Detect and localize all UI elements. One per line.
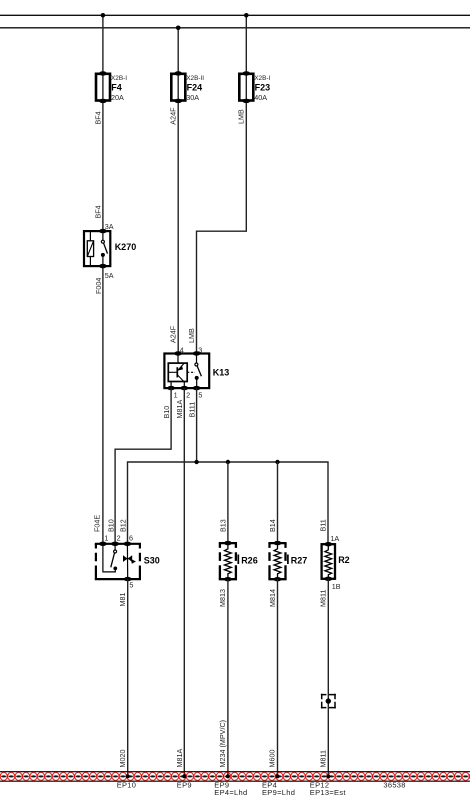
svg-text:5: 5 bbox=[198, 391, 202, 400]
fuse F23 40A bbox=[239, 71, 270, 103]
svg-text:6: 6 bbox=[129, 534, 133, 543]
node: junction dot mid bus / R27 branch bbox=[275, 460, 279, 464]
svg-text:B111: B111 bbox=[188, 402, 197, 418]
switch contact of K13 bbox=[195, 363, 198, 366]
svg-text:BF4: BF4 bbox=[93, 205, 102, 218]
svg-text:M600: M600 bbox=[268, 750, 277, 768]
svg-text:EP13=Est: EP13=Est bbox=[310, 788, 347, 797]
S30 pin6-pin5 line bbox=[126, 544, 128, 579]
K13 driver sub-box bbox=[168, 363, 187, 381]
wire BF4 (bus1 to fuse F4 to relay K270) bbox=[102, 15, 104, 231]
svg-text:F23: F23 bbox=[255, 83, 271, 93]
wire M813 (R26 to ground bus) bbox=[227, 579, 229, 776]
svg-text:EP9: EP9 bbox=[177, 780, 192, 789]
svg-text:R27: R27 bbox=[291, 555, 308, 565]
node: ground junction EP9/EP4 bbox=[226, 774, 230, 778]
svg-text:M81A: M81A bbox=[175, 749, 184, 768]
svg-text:S30: S30 bbox=[144, 555, 160, 565]
relay K13 (solid state) bbox=[164, 351, 229, 390]
svg-text:R26: R26 bbox=[241, 555, 258, 565]
svg-text:B12: B12 bbox=[119, 519, 128, 532]
svg-text:K270: K270 bbox=[115, 242, 137, 252]
resistor R2 bbox=[322, 542, 350, 581]
wire M81A (K13 pin2 to ground bus EP9) bbox=[183, 388, 185, 776]
svg-text:36538: 36538 bbox=[383, 780, 405, 789]
wire B10 (K13 pin1 to S30 pin 2) bbox=[115, 388, 171, 544]
node: junction dot bus2 / A24F bbox=[176, 26, 181, 31]
fuse F4 20A bbox=[96, 71, 127, 103]
svg-text:M81: M81 bbox=[118, 593, 127, 607]
svg-text:B11: B11 bbox=[319, 519, 328, 531]
svg-text:3A: 3A bbox=[105, 222, 114, 231]
node: junction dot bus1 / BF4 bbox=[101, 13, 106, 18]
svg-text:X2B-II: X2B-II bbox=[186, 75, 204, 82]
resistor R26 bbox=[219, 541, 258, 582]
bus line 1 (top supply rail) bbox=[0, 14, 470, 16]
resistor R27 bbox=[268, 541, 307, 582]
wire M814 (R27 to ground bus) bbox=[277, 579, 279, 776]
node: junction dot mid bus / R26 branch bbox=[226, 460, 230, 464]
svg-text:40A: 40A bbox=[254, 93, 267, 102]
node: junction dot bus1 / LMB bbox=[244, 13, 249, 18]
svg-text:B14: B14 bbox=[268, 519, 277, 532]
connector on wire M811 bbox=[321, 694, 336, 709]
svg-text:5: 5 bbox=[129, 581, 133, 590]
fuse F24 30A bbox=[171, 71, 204, 103]
svg-text:M811: M811 bbox=[318, 590, 327, 607]
wire LMB (bus1 through fuse F23 down and left to K13 pin 3) bbox=[197, 15, 247, 353]
node: ground junction EP9 bbox=[182, 774, 186, 778]
svg-text:LMB: LMB bbox=[237, 109, 246, 124]
svg-text:B13: B13 bbox=[218, 519, 227, 532]
svg-text:B10: B10 bbox=[106, 519, 115, 532]
svg-text:30A: 30A bbox=[186, 93, 199, 102]
S30 switch contact bbox=[114, 544, 116, 550]
svg-text:K13: K13 bbox=[213, 367, 230, 377]
svg-text:F24: F24 bbox=[187, 83, 203, 93]
svg-text:X2B-I: X2B-I bbox=[254, 75, 270, 82]
svg-text:B10: B10 bbox=[162, 406, 171, 419]
svg-text:1A: 1A bbox=[330, 534, 339, 543]
svg-text:1: 1 bbox=[174, 391, 178, 400]
svg-text:A24F: A24F bbox=[169, 107, 178, 125]
svg-text:LMB: LMB bbox=[187, 328, 196, 343]
svg-text:BF4: BF4 bbox=[93, 111, 102, 124]
svg-text:F04E: F04E bbox=[92, 515, 101, 532]
ground bus (hatched earth rail) bbox=[0, 772, 470, 782]
svg-text:A24F: A24F bbox=[169, 325, 178, 343]
svg-text:M234 (MPV/C): M234 (MPV/C) bbox=[218, 720, 227, 768]
svg-text:F4: F4 bbox=[111, 83, 122, 93]
mid distribution bus bbox=[128, 462, 329, 544]
svg-text:R2: R2 bbox=[338, 555, 350, 565]
svg-text:F004: F004 bbox=[94, 278, 103, 294]
svg-text:EP10: EP10 bbox=[117, 780, 137, 789]
svg-text:5A: 5A bbox=[105, 271, 114, 280]
bus line 2 (second supply rail) bbox=[0, 27, 470, 29]
svg-text:M814: M814 bbox=[268, 589, 277, 607]
svg-text:M811: M811 bbox=[318, 750, 327, 767]
wire B13 (mid bus to R26) bbox=[227, 462, 229, 543]
svg-text:M81A: M81A bbox=[175, 400, 184, 419]
switch S30 bbox=[95, 542, 160, 582]
node: junction dot B111 / mid bus bbox=[194, 460, 198, 464]
wire B111 (K13 pin5 to mid distribution bus) bbox=[196, 388, 198, 462]
svg-text:2: 2 bbox=[117, 534, 121, 543]
svg-text:1B: 1B bbox=[332, 582, 341, 591]
svg-text:M813: M813 bbox=[218, 589, 227, 607]
S30 sensing element symbol bbox=[123, 555, 128, 562]
transistor symbol inside K13 bbox=[168, 371, 177, 373]
svg-text:X2B-I: X2B-I bbox=[111, 75, 127, 82]
svg-text:M020: M020 bbox=[118, 750, 127, 768]
wire F004 (K270 pin 5A down to S30 pin 1) bbox=[102, 266, 104, 544]
relay K270 bbox=[84, 229, 136, 268]
svg-text:2: 2 bbox=[186, 391, 190, 400]
wire A24F (bus2 through fuse F24 down to K13 pin 4) bbox=[177, 28, 179, 354]
node: ground junction EP10 bbox=[126, 774, 130, 778]
wire M81/M020 (S30 pin 5 to ground bus EP10) bbox=[127, 579, 129, 776]
dashed actuation link K13 bbox=[187, 371, 195, 373]
coil of K270 bbox=[87, 241, 93, 257]
svg-text:EP9=Lhd: EP9=Lhd bbox=[262, 788, 295, 797]
S30 internal link pin1 bbox=[103, 544, 115, 572]
wire M811 (R2 to ground bus EP12) bbox=[327, 579, 329, 777]
node: ground junction EP4/EP9 bbox=[275, 774, 279, 778]
wire B14 (mid bus to R27) bbox=[277, 462, 279, 543]
svg-text:EP4=Lhd: EP4=Lhd bbox=[214, 788, 247, 797]
svg-text:1: 1 bbox=[104, 534, 108, 543]
switch contact of K270 bbox=[102, 231, 104, 240]
svg-text:20A: 20A bbox=[111, 93, 124, 102]
node: ground junction EP12 bbox=[326, 774, 330, 778]
